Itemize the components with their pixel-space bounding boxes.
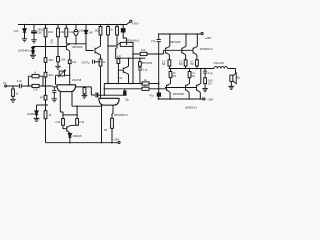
resistor R6 <box>116 27 119 36</box>
svg-text:91Ω: 91Ω <box>49 73 54 77</box>
input terminal IN <box>5 85 7 87</box>
wire y58.2 <box>117 57 145 59</box>
svg-text:8Ω: 8Ω <box>237 76 240 80</box>
ground G10 <box>55 66 61 69</box>
svg-text:47p: 47p <box>151 39 156 43</box>
wire LTP left leg to Vbe <box>60 112 63 115</box>
svg-text:−26V: −26V <box>113 137 120 141</box>
capacitor C1 electrolytic <box>31 25 37 40</box>
resistor R14 to ground <box>84 86 86 89</box>
ground under D1 <box>22 39 27 42</box>
wire bottom-left y105 <box>37 104 49 106</box>
svg-text:−28V: −28V <box>207 98 214 102</box>
resistor R25 emitter <box>184 60 187 66</box>
capacitor C2 electrolytic <box>74 29 78 35</box>
dual transistor U1 2SA798 LTP <box>57 84 77 86</box>
resistor R11 input shunt <box>12 86 14 89</box>
svg-text:100μ: 100μ <box>79 29 85 33</box>
wire top supply rail A <box>18 22 130 24</box>
resistor R5 <box>107 27 110 36</box>
svg-text:1Ω: 1Ω <box>173 73 176 75</box>
terminal +28V <box>201 33 203 35</box>
transistor T5 neg output <box>186 84 190 93</box>
svg-text:2N4848: 2N4848 <box>27 112 37 116</box>
resistor R12 NFB <box>32 75 39 78</box>
resistor R16 lower of pair <box>142 87 149 90</box>
resistor R22 <box>188 72 191 78</box>
resistor R18 100 <box>140 52 147 55</box>
terminal -26V <box>118 141 120 143</box>
terminal -28V <box>203 98 205 100</box>
svg-text:2.2k: 2.2k <box>33 88 39 92</box>
svg-text:MPSA56T: MPSA56T <box>173 92 185 96</box>
resistor R15 68 <box>111 118 114 128</box>
resistor R19 470 <box>117 59 120 64</box>
ground G9 <box>34 118 40 121</box>
wire top supply rail B +28V <box>160 33 202 35</box>
resistor R26 emitter <box>196 60 199 66</box>
terminal +36V <box>130 20 132 22</box>
capacitor C13 33p <box>124 91 126 95</box>
svg-text:2.4k: 2.4k <box>55 120 61 124</box>
svg-text:470: 470 <box>117 54 122 58</box>
svg-text:36Ω: 36Ω <box>49 58 54 62</box>
svg-text:IN: IN <box>3 81 6 85</box>
svg-text:24k: 24k <box>60 30 65 34</box>
capacitor C12 0.047u <box>92 60 94 64</box>
capacitor C9 47p compensation <box>157 34 161 54</box>
svg-text:0.1μ: 0.1μ <box>208 71 214 75</box>
diode D6 <box>36 105 38 111</box>
transistor Q1 current source <box>67 44 70 51</box>
ground G5 <box>52 99 58 102</box>
wire W1 <box>66 43 86 45</box>
capacitor C6 <box>95 93 97 98</box>
transistor T2 output <box>182 46 186 55</box>
svg-text:2SA798: 2SA798 <box>72 78 82 82</box>
transistor T6 neg output <box>197 84 201 93</box>
diode D5 <box>68 133 71 143</box>
capacitor C3 electrolytic <box>122 25 124 29</box>
svg-text:MPSA06: MPSA06 <box>170 40 181 44</box>
svg-text:1N4148: 1N4148 <box>72 134 82 138</box>
svg-text:+28V: +28V <box>205 36 212 40</box>
svg-text:1N4148✕2: 1N4148✕2 <box>18 48 31 52</box>
svg-text:2.4k: 2.4k <box>79 120 85 124</box>
resistor R29 <box>76 115 78 119</box>
transistor T4 neg driver <box>167 84 171 93</box>
transistor T2a (MPSA06 pair b) <box>113 43 120 50</box>
wire base bias for Q1 <box>33 46 66 48</box>
svg-text:MPSA06✕2: MPSA06✕2 <box>126 39 140 43</box>
diode D2 <box>85 25 87 31</box>
base bus negative <box>165 87 197 89</box>
svg-text:BD905✕2: BD905✕2 <box>185 106 197 110</box>
node split input/NFB <box>28 85 47 87</box>
capacitor C7 47p <box>157 93 160 96</box>
svg-text:MPSA06: MPSA06 <box>72 45 83 49</box>
dual transistor U2 MPSA56x2 <box>99 97 120 99</box>
transistor T3 output <box>193 46 197 55</box>
wire rail end drop <box>123 32 126 45</box>
resistor R17 upper of pair <box>142 82 149 85</box>
trimmer TR1 <box>59 71 64 76</box>
resistor R21 <box>169 72 172 78</box>
bottom rail D <box>46 142 118 144</box>
svg-text:1W: 1W <box>208 81 212 85</box>
inductor L1 P22+22T <box>214 67 228 69</box>
svg-text:MPSA56: MPSA56 <box>142 61 153 65</box>
resistor R28 <box>62 115 64 119</box>
capacitor C4 input 3.3u <box>19 84 21 89</box>
base bus positive <box>166 49 194 51</box>
wire y54 drive positive <box>133 50 164 54</box>
resistor R1 <box>44 28 47 37</box>
resistor R2 <box>57 28 60 37</box>
ground under D3 <box>30 55 36 58</box>
wire y83.5 main <box>104 83 143 85</box>
svg-text:33p: 33p <box>125 99 130 102</box>
svg-text:100: 100 <box>141 48 146 52</box>
svg-text:1.8k: 1.8k <box>60 57 66 61</box>
svg-text:47p: 47p <box>149 94 154 98</box>
svg-text:0.047μ: 0.047μ <box>81 60 89 64</box>
diode string D3 D4 <box>32 46 34 49</box>
svg-text:1μF: 1μF <box>14 29 19 33</box>
ground G7 <box>202 89 208 92</box>
transistor T1 driver NPN <box>164 46 170 55</box>
diode D1 <box>24 25 26 29</box>
wire lower drive to negative driver base <box>104 88 166 90</box>
ground G4 <box>10 99 16 102</box>
resistor R30 <box>99 59 102 66</box>
svg-text:2.4k: 2.4k <box>68 30 74 34</box>
zobel capacitor C11 <box>203 69 207 78</box>
transistor T8 (MPSA06 pair a) <box>95 46 100 54</box>
ground G8 under speaker <box>228 86 234 89</box>
resistor R9 on V2 column <box>44 72 47 77</box>
resistor R10 column <box>44 111 47 119</box>
resistor R20 <box>139 62 142 66</box>
capacitor C8 0.1u <box>138 68 142 84</box>
svg-text:+36V: +36V <box>132 22 139 26</box>
resistor R4 <box>99 27 102 36</box>
resistor R8b to ground <box>57 37 59 57</box>
svg-text:470: 470 <box>40 95 45 99</box>
resistor R31 collector load <box>120 42 133 46</box>
transistor T2b <box>118 66 128 74</box>
wire y106 LTP right leg <box>72 105 102 107</box>
transistor T7 vbe multiplier <box>63 125 77 133</box>
svg-text:P22+22T: P22+22T <box>214 61 225 65</box>
svg-text:MPSA56✕2: MPSA56✕2 <box>114 113 128 117</box>
wire Vbe top <box>63 114 77 116</box>
svg-text:0.1μ: 0.1μ <box>142 67 148 71</box>
svg-text:180: 180 <box>94 29 99 33</box>
wire NFB right / cap C6 <box>80 87 95 95</box>
ground G6 <box>82 95 88 98</box>
node dots rail A <box>24 24 122 26</box>
output node wire <box>169 68 214 70</box>
wire drop to base of T8 <box>86 44 94 51</box>
svg-text:35V: 35V <box>37 31 42 35</box>
svg-text:12Ω: 12Ω <box>48 30 53 34</box>
svg-text:10k: 10k <box>72 60 77 64</box>
resistor R3 <box>65 28 68 37</box>
resistor R24 emitter <box>168 60 171 66</box>
resistor R470 tail <box>44 95 47 100</box>
ground under C1 <box>31 40 37 43</box>
zobel resistor R27 <box>204 78 207 84</box>
svg-text:3.3μ: 3.3μ <box>17 79 23 83</box>
bottom rail C <box>158 98 203 100</box>
svg-text:0.4μ: 0.4μ <box>50 39 53 44</box>
resistor R13 series input <box>32 84 39 87</box>
resistor R8 on V2 column <box>44 58 47 63</box>
speaker SPK <box>230 75 233 81</box>
svg-text:2N3055✕2: 2N3055✕2 <box>200 47 213 51</box>
resistor R7 emitter 10k <box>68 60 71 64</box>
svg-text:16V: 16V <box>88 30 93 34</box>
capacitor C5 to ground <box>52 87 56 99</box>
